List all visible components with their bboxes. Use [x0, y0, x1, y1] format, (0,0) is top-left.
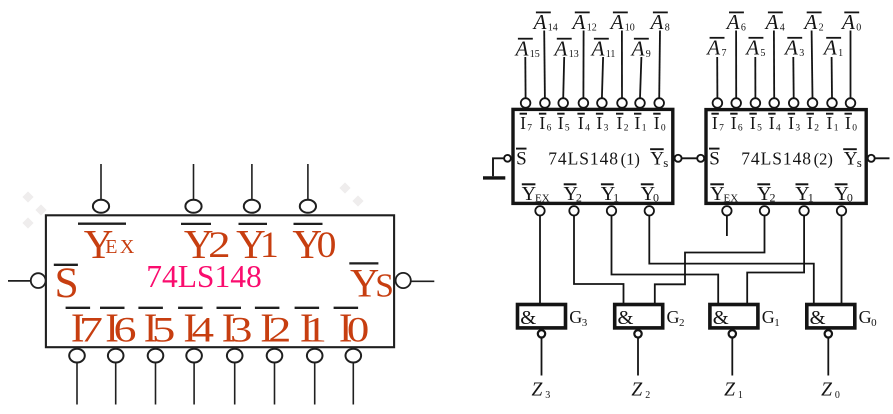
svg-text:7: 7 — [79, 309, 103, 349]
svg-text:(1): (1) — [621, 149, 640, 168]
svg-text:EX: EX — [724, 193, 739, 205]
svg-text:6: 6 — [738, 123, 743, 133]
svg-text:7: 7 — [527, 123, 532, 133]
svg-text:14: 14 — [548, 23, 558, 34]
svg-text:I: I — [635, 113, 641, 133]
svg-text:A: A — [630, 36, 645, 60]
svg-text:I: I — [731, 113, 737, 133]
svg-text:G: G — [762, 307, 775, 327]
svg-text:A: A — [744, 35, 759, 59]
svg-text:A: A — [649, 10, 664, 34]
svg-text:&: & — [810, 307, 826, 329]
svg-text:G: G — [667, 307, 680, 327]
svg-text:Y: Y — [844, 148, 858, 169]
svg-text:1: 1 — [838, 48, 843, 59]
svg-text:EX: EX — [535, 193, 550, 205]
svg-text:Y: Y — [650, 148, 664, 169]
svg-text:5: 5 — [757, 123, 762, 133]
svg-text:1: 1 — [642, 123, 647, 133]
svg-text:Y: Y — [710, 183, 724, 205]
svg-text:74LS148: 74LS148 — [548, 148, 619, 168]
svg-text:A: A — [764, 10, 779, 34]
svg-text:74LS148: 74LS148 — [146, 259, 262, 294]
svg-text:0: 0 — [317, 225, 337, 266]
svg-text:I: I — [520, 113, 526, 133]
svg-text:Z: Z — [821, 380, 832, 401]
svg-text:I: I — [558, 113, 564, 133]
svg-text:3: 3 — [582, 317, 588, 329]
svg-text:A: A — [609, 10, 624, 34]
svg-text:1: 1 — [834, 123, 839, 133]
svg-text:2: 2 — [268, 309, 291, 349]
svg-text:A: A — [590, 36, 605, 60]
svg-text:2: 2 — [679, 317, 685, 329]
svg-text:1: 1 — [613, 190, 619, 204]
svg-text:0: 0 — [852, 123, 857, 133]
svg-text:Z: Z — [532, 380, 543, 401]
svg-text:A: A — [705, 35, 720, 59]
svg-text:0: 0 — [347, 309, 369, 349]
svg-text:8: 8 — [665, 23, 670, 34]
svg-text:A: A — [802, 10, 817, 34]
svg-text:A: A — [783, 35, 798, 59]
svg-text:I: I — [807, 113, 813, 133]
svg-text:4: 4 — [780, 23, 785, 34]
svg-text:Z: Z — [724, 380, 735, 401]
svg-text:A: A — [571, 10, 586, 34]
svg-text:6: 6 — [547, 123, 552, 133]
svg-text:2: 2 — [814, 123, 819, 133]
svg-text:6: 6 — [114, 309, 137, 349]
svg-text:A: A — [553, 36, 568, 60]
svg-text:1: 1 — [260, 225, 279, 266]
svg-text:S: S — [55, 259, 79, 307]
svg-text:4: 4 — [776, 123, 781, 133]
svg-text:s: s — [857, 155, 862, 170]
svg-text:A: A — [532, 10, 547, 34]
svg-text:1: 1 — [305, 309, 327, 349]
svg-text:12: 12 — [587, 23, 597, 34]
svg-text:2: 2 — [645, 390, 650, 401]
svg-text:0: 0 — [653, 190, 659, 204]
svg-text:G: G — [859, 307, 872, 327]
svg-text:3: 3 — [795, 123, 800, 133]
svg-text:11: 11 — [606, 49, 616, 60]
svg-text:s: s — [663, 155, 668, 170]
svg-text:A: A — [725, 10, 740, 34]
svg-text:3: 3 — [604, 123, 609, 133]
svg-text:74LS148: 74LS148 — [741, 148, 812, 168]
svg-text:0: 0 — [871, 317, 877, 329]
svg-text:I: I — [578, 113, 584, 133]
svg-text:S: S — [375, 267, 394, 304]
svg-text:A: A — [514, 36, 529, 60]
svg-text:0: 0 — [847, 190, 853, 204]
svg-text:A: A — [822, 35, 837, 59]
svg-text:15: 15 — [530, 49, 540, 60]
svg-text:2: 2 — [576, 190, 582, 204]
svg-text:&: & — [713, 307, 729, 329]
svg-text:&: & — [618, 307, 634, 329]
svg-text:EX: EX — [105, 236, 137, 258]
svg-text:5: 5 — [760, 48, 765, 59]
svg-text:2: 2 — [624, 123, 629, 133]
svg-text:2: 2 — [770, 190, 776, 204]
svg-text:I: I — [712, 113, 718, 133]
svg-text:5: 5 — [152, 309, 176, 349]
svg-text:I: I — [617, 113, 623, 133]
svg-text:2: 2 — [819, 23, 824, 34]
svg-text:(2): (2) — [814, 149, 833, 168]
svg-text:1: 1 — [738, 390, 743, 401]
svg-text:S: S — [709, 148, 720, 169]
svg-text:I: I — [769, 113, 775, 133]
svg-text:1: 1 — [774, 317, 780, 329]
svg-text:4: 4 — [585, 123, 590, 133]
svg-text:1: 1 — [808, 190, 814, 204]
svg-text:0: 0 — [856, 23, 861, 34]
svg-text:0: 0 — [661, 123, 666, 133]
svg-text:6: 6 — [741, 23, 746, 34]
svg-text:4: 4 — [192, 309, 214, 349]
svg-text:G: G — [569, 307, 582, 327]
svg-text:3: 3 — [799, 48, 804, 59]
svg-text:&: & — [520, 307, 536, 329]
svg-text:I: I — [654, 113, 660, 133]
svg-text:I: I — [750, 113, 756, 133]
svg-text:3: 3 — [545, 390, 550, 401]
svg-text:5: 5 — [565, 123, 570, 133]
svg-text:I: I — [788, 113, 794, 133]
svg-text:3: 3 — [230, 309, 252, 349]
svg-text:7: 7 — [722, 48, 727, 59]
svg-text:I: I — [539, 113, 545, 133]
svg-text:Z: Z — [631, 380, 642, 401]
svg-text:10: 10 — [625, 23, 635, 34]
svg-text:A: A — [840, 10, 855, 34]
svg-text:I: I — [596, 113, 602, 133]
svg-text:I: I — [845, 113, 851, 133]
svg-text:S: S — [516, 148, 527, 169]
svg-text:Y: Y — [522, 183, 536, 205]
svg-text:0: 0 — [835, 390, 840, 401]
svg-text:9: 9 — [646, 49, 651, 60]
svg-text:7: 7 — [719, 123, 724, 133]
svg-text:I: I — [827, 113, 833, 133]
svg-text:13: 13 — [569, 49, 579, 60]
